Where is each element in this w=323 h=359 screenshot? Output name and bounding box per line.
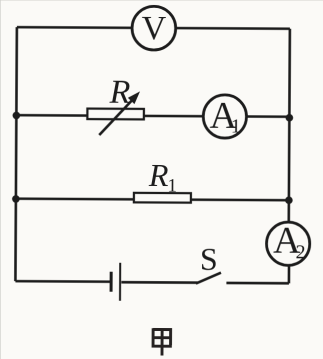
svg-text:R: R — [109, 74, 131, 111]
svg-text:S: S — [200, 241, 218, 277]
svg-text:1: 1 — [167, 176, 177, 197]
svg-text:V: V — [141, 10, 166, 47]
svg-text:R: R — [148, 157, 169, 193]
svg-text:2: 2 — [296, 241, 306, 263]
svg-text:1: 1 — [231, 115, 241, 137]
